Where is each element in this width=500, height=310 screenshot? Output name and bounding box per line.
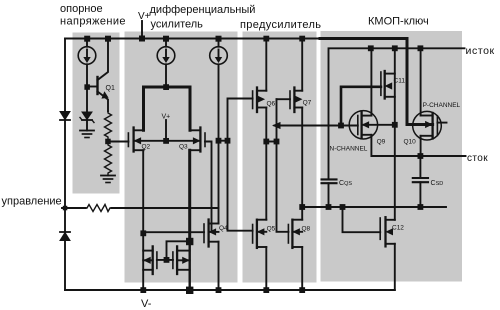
ground below R2 xyxy=(101,175,115,177)
svg-text:C12: C12 xyxy=(392,225,404,232)
svg-text:Q8: Q8 xyxy=(302,226,311,233)
node: junction dot CS2 on V+ rail xyxy=(163,36,169,42)
wire: thick inverted U (Q2/Q3 drains) xyxy=(144,87,191,130)
zener diode Z1 at Q1 base xyxy=(82,112,92,120)
wire: mirror gates tie xyxy=(157,259,173,261)
svg-text:V-: V- xyxy=(141,298,152,310)
wire: Q4 source to V- rail xyxy=(218,242,220,290)
node: junction dot mirror gates xyxy=(164,257,170,263)
wire: Q7 gate lead xyxy=(277,98,291,100)
svg-text:Q9: Q9 xyxy=(377,139,386,146)
capacitor CQS xyxy=(322,178,337,180)
wire: Q9 drain up to исток xyxy=(370,48,372,115)
wire: Q8 source to V- rail xyxy=(301,247,303,290)
transistor Q7 (preamp load right) xyxy=(289,91,291,109)
node: junction dot mirror input (big) xyxy=(186,238,193,245)
node: junction dot Q5 source on V- rail xyxy=(263,287,269,293)
node: junction dot C11 branch on исток xyxy=(392,45,398,51)
wire: bridge preamp node dots xyxy=(266,141,276,143)
diode D1 on left rail xyxy=(60,112,70,120)
wire: Q6 source down to Q5 drain xyxy=(265,108,267,220)
wire: mirror output to Q4 gate xyxy=(143,231,204,233)
node: junction dot Q4 source on V- rail xyxy=(216,287,222,293)
wire: Q5 source to V- rail xyxy=(265,247,267,290)
svg-text:P-CHANNEL: P-CHANNEL xyxy=(423,102,461,109)
node: junction dot CS3 on V+ rail xyxy=(216,36,222,42)
svg-text:предусилитель: предусилитель xyxy=(240,19,321,31)
wire: Q6 drain to V+ rail xyxy=(265,39,267,91)
svg-text:дифференциальный: дифференциальный xyxy=(150,4,256,16)
wire: V+ rail thick right segment into Q10 body xyxy=(320,39,433,125)
transistor Q5a (mirror left) xyxy=(152,246,154,274)
MOS capacitor C11 xyxy=(380,72,382,95)
node: junction dot Q10 drain on исток xyxy=(418,45,424,51)
node: junction dot comparator node right xyxy=(225,138,231,144)
wire: Q10 drain up to исток xyxy=(420,48,422,115)
svg-text:исток: исток xyxy=(466,45,495,57)
svg-text:Q10: Q10 xyxy=(404,139,417,146)
node: junction dot CS2/thick U xyxy=(163,84,169,90)
wire: Q10 source down to сток xyxy=(420,136,422,156)
node: junction dot on V- rail left xyxy=(140,287,146,293)
resistor R3 (control) xyxy=(86,205,112,212)
wire: drive line to Q9 gate with arrow xyxy=(275,125,358,127)
node: junction dot C12 gate branch xyxy=(340,204,346,210)
wire: bridge between node dots xyxy=(219,140,228,142)
wire: mirror input to V- rail xyxy=(188,241,190,290)
node: junction dot CSD bottom xyxy=(418,204,424,210)
node: junction dot Q8 source on V- rail xyxy=(299,287,305,293)
node: junction dot Q10 source on сток xyxy=(418,153,424,159)
diode D2 on left rail (lower, pointing up) xyxy=(60,233,70,241)
wire: tap from divider to Q2 gate xyxy=(108,141,128,143)
svg-text:CSD: CSD xyxy=(431,180,444,187)
svg-text:Q3: Q3 xyxy=(179,144,188,151)
transistor Q5b (mirror right) xyxy=(176,246,178,274)
wire: C12 bottom to V- rail end xyxy=(394,244,396,290)
capacitor CSD xyxy=(419,156,421,178)
current source CS2 (diff amp tail) xyxy=(157,47,175,65)
wire: CS3 top lead xyxy=(218,39,220,47)
wire: исток body vertical (C11, Q9 body, to C12 top) xyxy=(394,48,396,220)
node: junction dot CQS bottom xyxy=(326,204,332,210)
transistor Q6 (preamp load left) xyxy=(252,91,254,109)
wire: Q2 source down to mirror xyxy=(142,150,144,290)
wire: V+ top rail xyxy=(65,38,340,40)
transistor Q10 (P-channel switch) xyxy=(413,111,442,140)
transistor Q3 (diff pair right) xyxy=(204,133,206,147)
node: junction dot preamp node left xyxy=(263,139,269,145)
gray box: reference voltage section xyxy=(73,33,120,194)
transistor Q4 (level shift) xyxy=(203,224,205,243)
wire: Q10 gate stub xyxy=(437,122,446,124)
gray box: differential amplifier section xyxy=(125,32,238,283)
wire: CS2 top lead xyxy=(165,39,167,47)
svg-text:CQS: CQS xyxy=(339,180,352,187)
transistor Q1 (npn) xyxy=(96,77,98,94)
wire: управление line with resistor xyxy=(62,207,86,209)
svg-text:сток: сток xyxy=(467,153,488,164)
wire: Q7 drain to V+ rail xyxy=(301,39,303,91)
node: junction dot comparator node left xyxy=(216,138,222,144)
wire: node to Q6 gate (up) and Q5 gate (down) xyxy=(228,99,253,231)
wire: left vertical rail (V+ to V-) xyxy=(64,39,66,291)
gray box: CMOS switch section xyxy=(321,31,463,282)
transistor Q2 (diff pair left) xyxy=(127,133,129,147)
transistor Q8 (preamp lower right) xyxy=(287,225,289,244)
current source CS3 xyxy=(210,47,228,65)
wire: body stub to bodies node xyxy=(165,120,167,141)
MOS capacitor C12 xyxy=(379,218,381,239)
ground below zener xyxy=(86,120,88,131)
node: junction dot Q9 drain on исток xyxy=(368,45,374,51)
wire: vertical preamp input chain to Q8 gate xyxy=(277,99,289,232)
node: junction dot Q1 collector on V+ rail xyxy=(105,36,111,42)
node: junction dot Q7 drain on rail xyxy=(299,36,305,42)
node: junction dot big on V- rail xyxy=(186,287,193,294)
svg-text:опорное: опорное xyxy=(60,3,103,15)
node: junction dot V+ lead xyxy=(139,36,145,42)
svg-text:Q7: Q7 xyxy=(303,100,312,107)
wire: Q9 source to сток line xyxy=(371,135,465,156)
node: junction dot Q6 drain on rail xyxy=(263,36,269,42)
node: junction dot CS1 on V+ rail xyxy=(84,36,90,42)
svg-text:управление: управление xyxy=(2,196,62,208)
transistor Q5 (preamp lower left) xyxy=(252,225,254,244)
wire: CS1 output down to Q1 base node xyxy=(86,64,88,111)
node: junction dot preamp output on node line xyxy=(299,204,305,210)
transistor Q9 (N-channel switch) xyxy=(349,111,377,139)
resistor R2 (lower) xyxy=(105,144,112,176)
wire: node line branch down to C12 gate xyxy=(343,207,381,232)
node: junction dot Q1 base xyxy=(84,84,90,90)
wire: управление line to Q4 drain node xyxy=(112,207,219,209)
wire: Q3 source thick down to mirror input xyxy=(188,150,191,241)
wire: thick drive branch to C11 gate xyxy=(341,87,381,126)
svg-text:Q4: Q4 xyxy=(219,225,228,232)
node: junction dot управление/left rail xyxy=(63,206,68,211)
svg-text:напряжение: напряжение xyxy=(60,16,126,28)
wire: CS3 output down through node to Q4 drain xyxy=(218,64,220,223)
node: junction dot Q9 body xyxy=(392,122,398,128)
wire: lower horizontal node line xyxy=(302,206,446,208)
svg-text:Q1: Q1 xyxy=(106,85,115,92)
svg-text:V+: V+ xyxy=(138,11,151,22)
svg-text:усилитель: усилитель xyxy=(151,19,204,31)
node: junction dot mirror output xyxy=(140,230,146,236)
wire: gates to mirror input node xyxy=(167,241,190,260)
node: junction dot Q2/Q3 bodies xyxy=(163,138,169,144)
wire: V- bottom rail xyxy=(65,289,395,291)
svg-text:КМОП-ключ: КМОП-ключ xyxy=(368,16,429,28)
svg-text:Q5: Q5 xyxy=(267,226,276,233)
node: junction dot preamp node right xyxy=(274,139,280,145)
gray box: preamplifier section xyxy=(243,32,317,283)
svg-text:N-CHANNEL: N-CHANNEL xyxy=(330,146,368,153)
svg-text:Q6: Q6 xyxy=(267,101,276,108)
wire: V+ lead from label to rail xyxy=(141,21,143,39)
wire: Q3 gate lead down xyxy=(205,142,212,232)
resistor R1 (upper, emitter chain) xyxy=(105,111,112,140)
wire: исток line xyxy=(329,48,465,179)
node: junction dot drive line / C11 branch xyxy=(338,123,344,129)
wire: CS2 output to diff pair xyxy=(165,64,167,87)
node: junction dot R1/R2 tap xyxy=(105,139,111,145)
wire: Q7 source down to Q8 drain xyxy=(301,108,303,220)
current source CS1 (reference section) xyxy=(78,47,96,65)
wire: CS1 top lead xyxy=(86,39,88,47)
